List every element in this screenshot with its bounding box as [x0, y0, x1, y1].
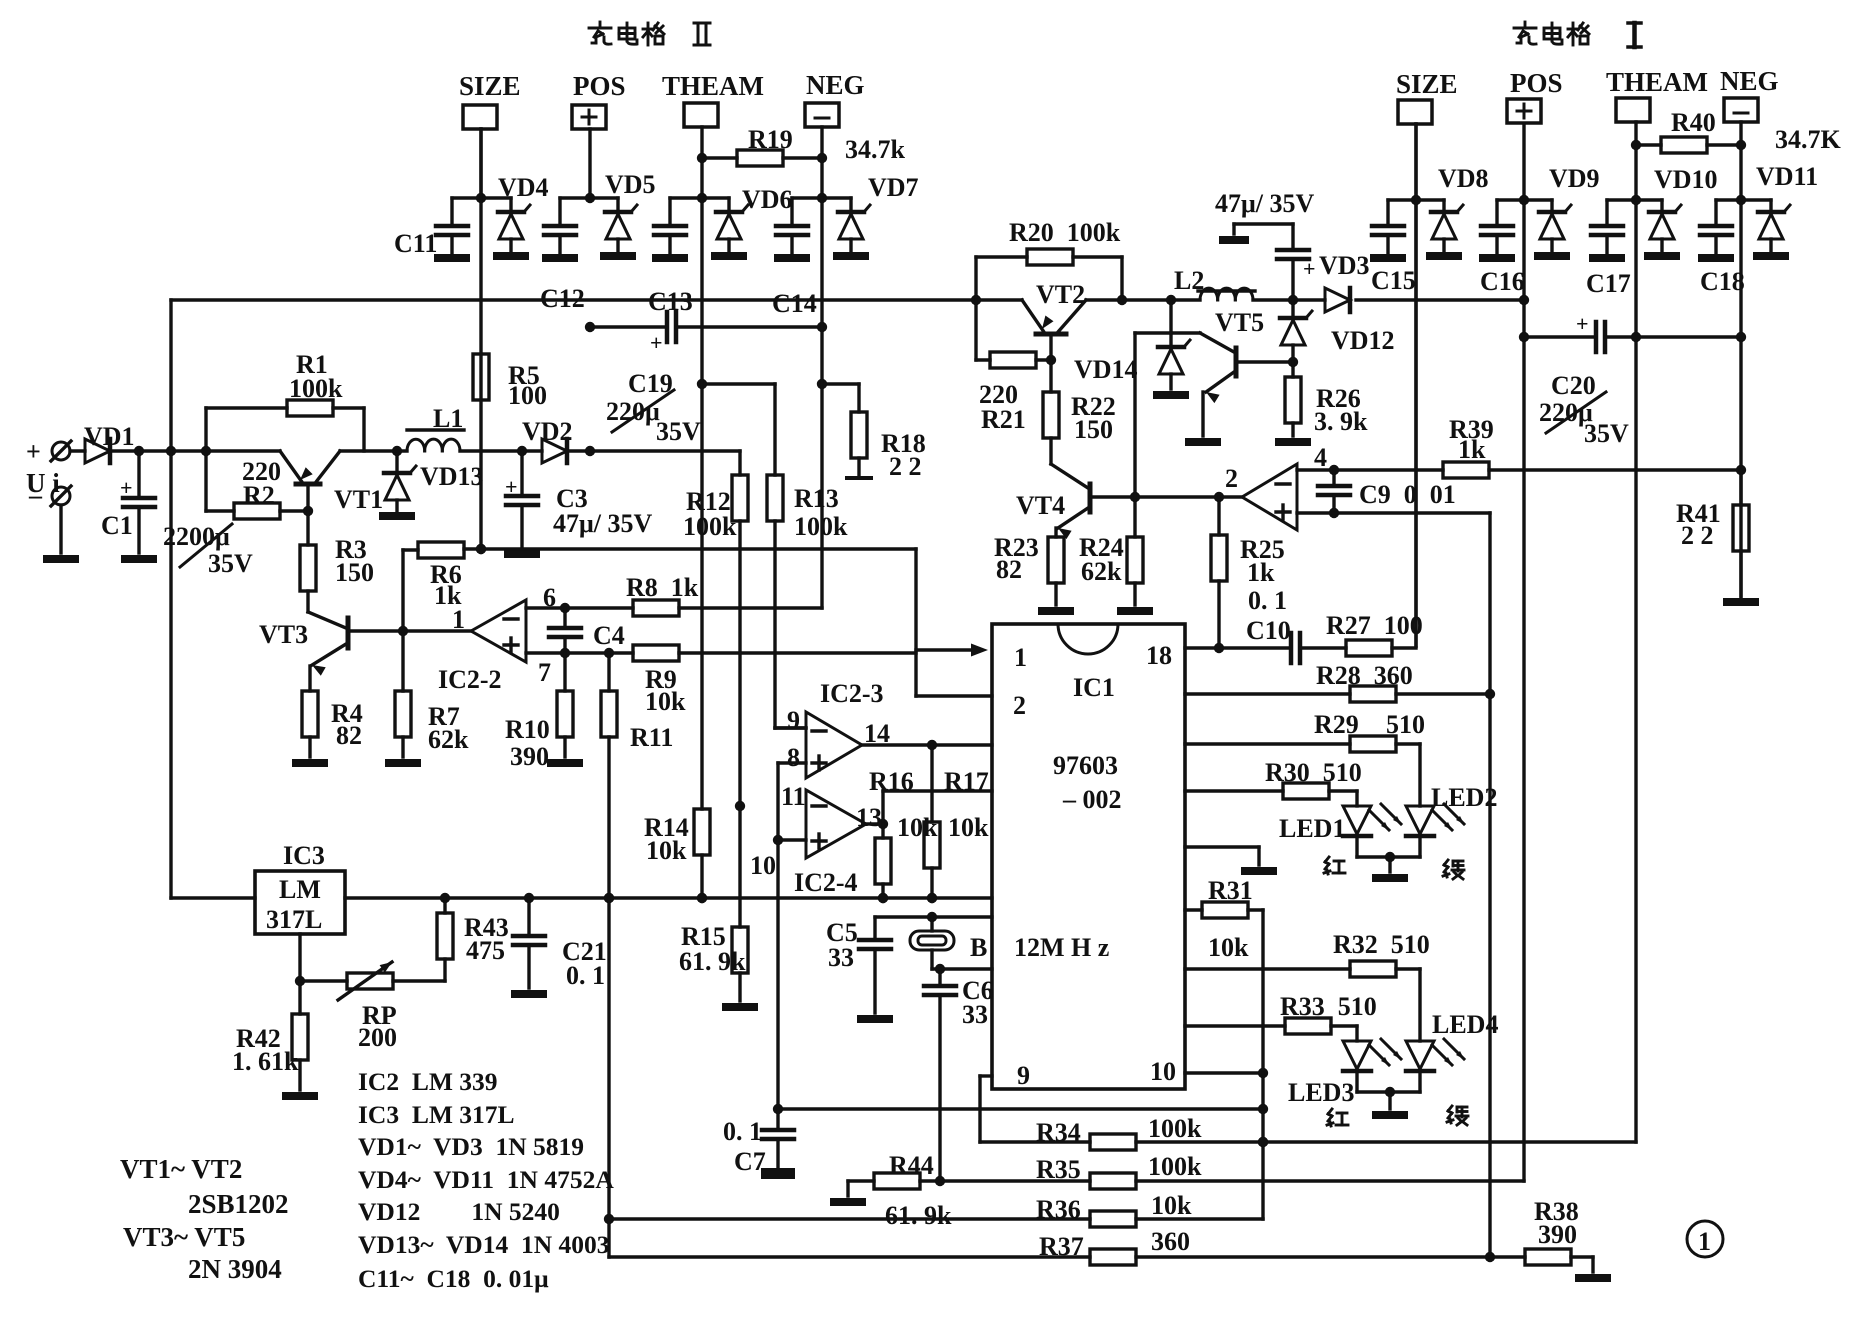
resistor R37 360	[609, 898, 1490, 1265]
resistor R24 62k	[1079, 497, 1153, 615]
transistor VT2 (2SB1202)	[1022, 280, 1086, 360]
svg-text:C20: C20	[1551, 371, 1596, 400]
resistor R7 62k	[385, 691, 469, 767]
svg-text:10k: 10k	[645, 687, 686, 716]
capacitor C5 33	[826, 917, 893, 1023]
zener diode VD6	[711, 185, 793, 260]
resistor R19 34.7k	[697, 125, 906, 166]
resistor R4 82	[292, 666, 363, 767]
svg-text:360: 360	[1151, 1227, 1190, 1256]
svg-text:35V: 35V	[656, 417, 701, 446]
diode VD1	[70, 422, 280, 463]
svg-text:100k: 100k	[1148, 1152, 1202, 1181]
svg-text:34.7k: 34.7k	[845, 135, 906, 164]
resistor R12 100k	[683, 475, 748, 811]
potentiometer RP 200	[300, 959, 445, 1052]
LED LED3 (red)	[1288, 1039, 1401, 1126]
svg-text:VD10: VD10	[1654, 165, 1718, 194]
wire: NEG II vertical to R8	[820, 198, 823, 608]
svg-text:VD11: VD11	[1756, 162, 1818, 191]
svg-text:VD4: VD4	[498, 173, 549, 202]
svg-text:R37: R37	[1039, 1232, 1084, 1261]
svg-text:9: 9	[1017, 1061, 1030, 1090]
inductor L1	[407, 404, 464, 451]
svg-text:VT3: VT3	[259, 620, 308, 649]
svg-text:R16: R16	[869, 767, 914, 796]
svg-text:R10: R10	[505, 715, 550, 744]
svg-text:1. 61k: 1. 61k	[232, 1047, 299, 1076]
svg-text:VD5: VD5	[605, 170, 656, 199]
svg-text:35V: 35V	[208, 549, 253, 578]
zener diode VD4	[493, 173, 549, 260]
svg-text:SIZE: SIZE	[459, 71, 521, 101]
capacitor C21 0.1	[511, 898, 607, 998]
svg-text:150: 150	[335, 558, 374, 587]
resistor R6 1k	[398, 542, 916, 691]
svg-text:C18: C18	[1700, 267, 1745, 296]
svg-text:LM: LM	[279, 875, 321, 904]
svg-text:C17: C17	[1586, 269, 1631, 298]
svg-text:0. 1: 0. 1	[1248, 586, 1287, 615]
svg-text:+: +	[1576, 311, 1589, 336]
svg-text:390: 390	[1538, 1220, 1577, 1249]
wire: LED1/LED2 cathodes to ground	[1357, 838, 1420, 882]
svg-text:THEAM: THEAM	[1606, 67, 1708, 97]
resistor R39 1k	[1443, 415, 1746, 478]
wire: VT5 collector to VT4 base	[1135, 300, 1200, 497]
svg-text:34.7K: 34.7K	[1775, 125, 1842, 154]
wire: supply rail to IC3 and comparators	[171, 893, 992, 903]
resistor R5 100	[473, 354, 547, 410]
resistor R38 390	[1490, 1197, 1611, 1282]
zener diode VD8	[1426, 164, 1489, 260]
svg-text:C11~ C18 0. 01μ: C11~ C18 0. 01μ	[358, 1264, 549, 1293]
zener diode VD13	[379, 446, 484, 520]
resistor R25 1k	[1211, 497, 1287, 653]
svg-text:3. 9k: 3. 9k	[1314, 407, 1368, 436]
resistor R16 10k	[869, 767, 938, 903]
text: title charger I	[1514, 22, 1641, 47]
resistor R9 10k	[526, 645, 916, 716]
resistor R29 510	[1185, 710, 1425, 806]
text: title charger II	[589, 22, 710, 45]
capacitor C7 0.1	[723, 1109, 795, 1179]
svg-text:VD1~ VD3 1N 5819: VD1~ VD3 1N 5819	[358, 1132, 584, 1161]
svg-text:POS: POS	[573, 71, 626, 101]
node circled 1	[1687, 1221, 1723, 1257]
svg-text:10k: 10k	[948, 813, 989, 842]
wire: main top bus	[171, 295, 1529, 305]
resistor R15 61.9k	[679, 806, 758, 1011]
capacitor C8 47u/35V	[1215, 189, 1316, 300]
resistor R13 100k	[697, 379, 848, 728]
svg-text:C15: C15	[1371, 266, 1416, 295]
capacitor C15	[1370, 200, 1444, 295]
svg-text:9: 9	[787, 706, 800, 735]
svg-text:1k: 1k	[1458, 435, 1486, 464]
op-amp IC2-4 (comparator)	[750, 782, 882, 897]
svg-text:R33 510: R33 510	[1280, 992, 1377, 1021]
svg-text:R2: R2	[243, 481, 275, 510]
svg-text:12M H z: 12M H z	[1014, 933, 1109, 962]
svg-text:POS: POS	[1510, 68, 1563, 98]
wire: pin1/pin2 feed	[916, 549, 992, 696]
wire: IC1 pin18 line	[1185, 646, 1291, 649]
svg-text:R31: R31	[1208, 876, 1253, 905]
svg-text:R13: R13	[794, 484, 839, 513]
svg-text:2 2: 2 2	[1681, 521, 1714, 550]
wire: IC1 xtal top line	[875, 912, 992, 922]
svg-text:10k: 10k	[646, 836, 687, 865]
capacitor C11	[394, 193, 511, 262]
resistor R26 3.9k	[1275, 362, 1368, 446]
IC U1 IC1 97603-002	[992, 624, 1185, 1090]
svg-text:SIZE: SIZE	[1396, 69, 1458, 99]
svg-text:NEG: NEG	[1720, 66, 1779, 96]
svg-text:2SB1202: 2SB1202	[188, 1189, 289, 1219]
svg-text:2200μ: 2200μ	[163, 522, 230, 551]
zener diode VD10	[1644, 165, 1718, 260]
svg-text:R21: R21	[981, 405, 1026, 434]
diode VD3	[1319, 251, 1370, 312]
wire: VT1 collector to L1	[340, 449, 407, 452]
svg-text:62k: 62k	[428, 725, 469, 754]
svg-text:VD13: VD13	[420, 462, 484, 491]
svg-text:R40: R40	[1671, 108, 1716, 137]
resistor R35 100k	[940, 1152, 1524, 1189]
svg-text:VD14: VD14	[1074, 355, 1138, 384]
svg-text:97603: 97603	[1053, 751, 1118, 780]
svg-text:R28 360: R28 360	[1316, 661, 1413, 690]
svg-text:IC3 LM 317L: IC3 LM 317L	[358, 1100, 515, 1129]
svg-text:+: +	[650, 330, 663, 355]
transistor VT4 (2N3904)	[1016, 464, 1242, 539]
svg-text:VT1~ VT2: VT1~ VT2	[120, 1154, 242, 1184]
svg-text:C10: C10	[1246, 616, 1291, 645]
svg-text:VD9: VD9	[1549, 164, 1600, 193]
resistor R33 510	[1185, 992, 1377, 1041]
svg-text:100k: 100k	[289, 374, 343, 403]
svg-text:VT4: VT4	[1016, 491, 1065, 520]
svg-text:IC1: IC1	[1073, 673, 1115, 702]
resistor R1 100k	[201, 350, 364, 511]
svg-text:R35: R35	[1036, 1155, 1081, 1184]
zener diode VD14	[1074, 333, 1190, 399]
resistor R17 10k	[924, 745, 989, 903]
svg-text:1: 1	[1698, 1227, 1711, 1256]
capacitor C13	[648, 193, 729, 316]
resistor R22 150	[1043, 360, 1116, 464]
zener diode VD9	[1534, 164, 1600, 260]
svg-text:VD7: VD7	[868, 173, 919, 202]
svg-text:390: 390	[510, 742, 549, 771]
terminal pad SIZE (II)	[459, 71, 521, 198]
svg-text:0. 1: 0. 1	[566, 961, 605, 990]
svg-text:R27 100: R27 100	[1326, 611, 1423, 640]
wire: SIZE II vertical	[476, 129, 486, 554]
svg-text:10k: 10k	[1151, 1191, 1192, 1220]
capacitor C19 220u/35V	[585, 312, 827, 446]
svg-text:B: B	[970, 933, 987, 962]
svg-text:7: 7	[538, 658, 551, 687]
svg-text:VD2: VD2	[522, 417, 573, 446]
svg-text:35V: 35V	[1584, 419, 1629, 448]
svg-text:13: 13	[856, 803, 882, 832]
svg-text:NEG: NEG	[806, 70, 865, 100]
svg-text:R32 510: R32 510	[1333, 930, 1430, 959]
terminal pad POS (II)	[572, 71, 626, 198]
svg-text:150: 150	[1074, 415, 1113, 444]
IC U3 IC3 LM317L	[255, 841, 345, 934]
capacitor C1 2200u/35V	[101, 446, 253, 578]
svg-text:VD6: VD6	[742, 185, 793, 214]
svg-text:C11: C11	[394, 229, 437, 258]
svg-text:R8 1k: R8 1k	[626, 573, 699, 602]
capacitor C4	[549, 608, 625, 653]
op-amp IC2-2 (comparator)	[438, 583, 556, 694]
svg-text:VD8: VD8	[1438, 164, 1489, 193]
terminal pad SIZE (I)	[1396, 69, 1458, 646]
resistor R31 10k	[1185, 876, 1268, 1219]
resistor R28 360	[1185, 661, 1490, 702]
wire: IC2-1 minus input line	[1297, 465, 1443, 475]
resistor R20 100k	[976, 218, 1122, 300]
crystal B 12MHz	[910, 917, 987, 969]
zener diode VD7	[833, 173, 919, 260]
text: transistor list	[120, 1154, 289, 1284]
svg-text:11: 11	[781, 782, 806, 811]
terminal pad THEAM (I)	[1606, 67, 1708, 1142]
capacitor C20 220u/35V	[1519, 311, 1746, 448]
wire: IC2-3 inputs	[773, 728, 806, 1109]
svg-text:2 2: 2 2	[889, 452, 922, 481]
transistor VT1 (2SB1202)	[280, 451, 383, 514]
terminal pad THEAM (II)	[662, 71, 764, 198]
resistor R44 61.9k	[830, 1151, 952, 1230]
svg-text:LED4: LED4	[1432, 1010, 1498, 1039]
capacitor C18	[1698, 200, 1771, 296]
wire: IC1 pin10 line	[1185, 1071, 1263, 1074]
svg-text:8: 8	[787, 743, 800, 772]
svg-text:C4: C4	[593, 621, 625, 650]
svg-text:2: 2	[1013, 691, 1026, 720]
svg-text:THEAM: THEAM	[662, 71, 764, 101]
op-amp IC2-3 (comparator)	[787, 679, 890, 778]
wire: LED3/LED4 cathodes to ground	[1357, 1073, 1420, 1119]
wire: IC2-4 output to IC1	[866, 791, 992, 829]
LED LED1 (red)	[1279, 804, 1401, 874]
terminal pad POS (I)	[1507, 68, 1563, 1181]
wire: C7 node line	[773, 1104, 1263, 1114]
resistor R14 10k	[644, 198, 710, 903]
wire: VT1 output to VD2	[460, 446, 542, 456]
svg-text:33: 33	[828, 943, 854, 972]
resistor R32 510	[1185, 930, 1430, 1041]
terminal pad NEG (II)	[805, 70, 865, 198]
svg-text:VD1: VD1	[84, 422, 135, 451]
resistor R18 2.2	[817, 379, 926, 481]
svg-text:VT5: VT5	[1215, 308, 1264, 337]
svg-text:IC2-2: IC2-2	[438, 665, 502, 694]
wire: IC2-3 output pin14 to IC1	[862, 740, 992, 750]
svg-text:82: 82	[336, 721, 362, 750]
svg-text:82: 82	[996, 555, 1022, 584]
svg-text:33: 33	[962, 1000, 988, 1029]
svg-text:220μ: 220μ	[606, 397, 660, 426]
svg-text:R36: R36	[1036, 1195, 1081, 1224]
svg-text:VT1: VT1	[334, 485, 383, 514]
svg-text:R29: R29	[1314, 710, 1359, 739]
svg-text:C16: C16	[1480, 267, 1525, 296]
svg-text:+: +	[26, 437, 41, 466]
capacitor C17	[1586, 200, 1662, 298]
zener diode VD5	[600, 170, 656, 260]
svg-text:–: –	[28, 481, 43, 510]
svg-text:C9 0 01: C9 0 01	[1359, 480, 1456, 509]
svg-text:R44: R44	[889, 1151, 934, 1180]
svg-text:+: +	[1303, 256, 1316, 281]
svg-text:10: 10	[1150, 1057, 1176, 1086]
resistor R2 220	[206, 457, 313, 519]
svg-text:47μ/ 35V: 47μ/ 35V	[1215, 189, 1314, 218]
svg-text:61. 9k: 61. 9k	[679, 947, 746, 976]
text: parts list	[358, 1067, 614, 1293]
terminal pad NEG (I)	[1720, 66, 1779, 600]
svg-text:LED2: LED2	[1431, 783, 1497, 812]
LED LED4 (green)	[1406, 1010, 1498, 1125]
svg-text:47μ/ 35V: 47μ/ 35V	[553, 509, 652, 538]
wire: IC1 pin9 to R34	[980, 1076, 992, 1142]
svg-text:1k: 1k	[434, 581, 462, 610]
resistor R40 34.7K	[1631, 108, 1842, 154]
svg-text:2: 2	[1225, 464, 1238, 493]
capacitor C12	[540, 193, 618, 313]
svg-text:IC3: IC3	[283, 841, 325, 870]
capacitor C3 47u/35V	[504, 451, 652, 558]
svg-text:VT3~ VT5: VT3~ VT5	[123, 1222, 245, 1252]
diode VD2	[522, 417, 595, 463]
resistor R30 510	[1185, 758, 1362, 806]
svg-text:1: 1	[1014, 643, 1027, 672]
resistor R23 82	[994, 533, 1074, 615]
ground (input)	[43, 555, 79, 563]
capacitor C6 33	[924, 969, 994, 1181]
svg-text:R34: R34	[1036, 1118, 1081, 1147]
svg-text:R19: R19	[748, 125, 793, 154]
svg-text:LED3: LED3	[1288, 1078, 1354, 1107]
wire: IC1 xtal bottom line	[932, 964, 992, 974]
resistor R11	[601, 653, 673, 903]
svg-text:VD4~ VD11 1N 4752A: VD4~ VD11 1N 4752A	[358, 1165, 614, 1194]
svg-text:18: 18	[1146, 641, 1172, 670]
zener diode VD12	[1280, 300, 1395, 362]
capacitor C14	[772, 193, 851, 318]
zener diode VD11	[1753, 162, 1818, 260]
svg-text:– 002: – 002	[1062, 785, 1122, 814]
resistor R34 100k	[980, 1114, 1636, 1150]
resistor R41 2.2	[1676, 470, 1759, 606]
resistor R21 220	[976, 300, 1056, 434]
svg-text:61. 9k: 61. 9k	[885, 1201, 952, 1230]
LED LED2 (green)	[1406, 783, 1497, 879]
svg-text:0. 1: 0. 1	[723, 1117, 762, 1146]
svg-text:IC2 LM 339: IC2 LM 339	[358, 1067, 498, 1096]
capacitor C9 0.01	[1318, 470, 1456, 518]
svg-text:VD12: VD12	[1331, 326, 1395, 355]
svg-text:C14: C14	[772, 289, 817, 318]
svg-text:2N 3904: 2N 3904	[188, 1254, 282, 1284]
capacitor C16	[1479, 200, 1552, 296]
svg-text:VD13~ VD14 1N 4003: VD13~ VD14 1N 4003	[358, 1230, 610, 1259]
svg-text:C1: C1	[101, 511, 133, 540]
capacitor C10	[1246, 616, 1300, 663]
svg-text:1k: 1k	[1247, 558, 1275, 587]
ground (IC1 pin)	[1185, 847, 1277, 875]
svg-text:200: 200	[358, 1023, 397, 1052]
svg-text:R17: R17	[944, 767, 989, 796]
svg-text:R11: R11	[630, 723, 673, 752]
resistor R3 150	[300, 511, 374, 612]
resistor R43 475	[437, 898, 509, 965]
svg-text:VD3: VD3	[1319, 251, 1370, 280]
wire: VD2 output to R12	[590, 451, 740, 475]
svg-text:C7: C7	[734, 1147, 766, 1176]
resistor R42 1.61k	[232, 934, 318, 1100]
svg-text:100: 100	[508, 381, 547, 410]
svg-text:4: 4	[1314, 443, 1327, 472]
svg-text:100k: 100k	[683, 512, 737, 541]
wire: left bus vertical	[166, 300, 176, 898]
svg-text:L1: L1	[433, 404, 463, 433]
svg-text:10k: 10k	[1208, 933, 1249, 962]
svg-text:475: 475	[466, 936, 505, 965]
svg-text:510: 510	[1386, 710, 1425, 739]
resistor R10 390	[505, 653, 583, 771]
terminal Ui input + -	[26, 437, 71, 553]
svg-text:62k: 62k	[1081, 557, 1122, 586]
svg-text:10: 10	[750, 851, 776, 880]
wire: IC2-1 plus input to R28 node	[1297, 513, 1495, 1262]
resistor R36 10k	[604, 1191, 1263, 1227]
svg-text:VD12 1N 5240: VD12 1N 5240	[358, 1197, 560, 1226]
svg-text:IC2-3: IC2-3	[820, 679, 884, 708]
inductor L2	[1174, 266, 1255, 300]
svg-text:R20 100k: R20 100k	[1009, 218, 1121, 247]
svg-text:100k: 100k	[1148, 1114, 1202, 1143]
transistor VT5 (2N3904)	[1185, 308, 1298, 446]
svg-text:R30 510: R30 510	[1265, 758, 1362, 787]
resistor R27 100	[1300, 124, 1423, 656]
op-amp IC2-1 (comparator)	[1225, 443, 1327, 530]
svg-text:IC2-4: IC2-4	[794, 868, 858, 897]
svg-text:317L: 317L	[266, 905, 322, 934]
transistor VT3 (2N3904)	[259, 612, 471, 676]
svg-text:VT2: VT2	[1036, 280, 1085, 309]
resistor R8 1k	[526, 573, 822, 616]
svg-text:LED1: LED1	[1279, 814, 1345, 843]
